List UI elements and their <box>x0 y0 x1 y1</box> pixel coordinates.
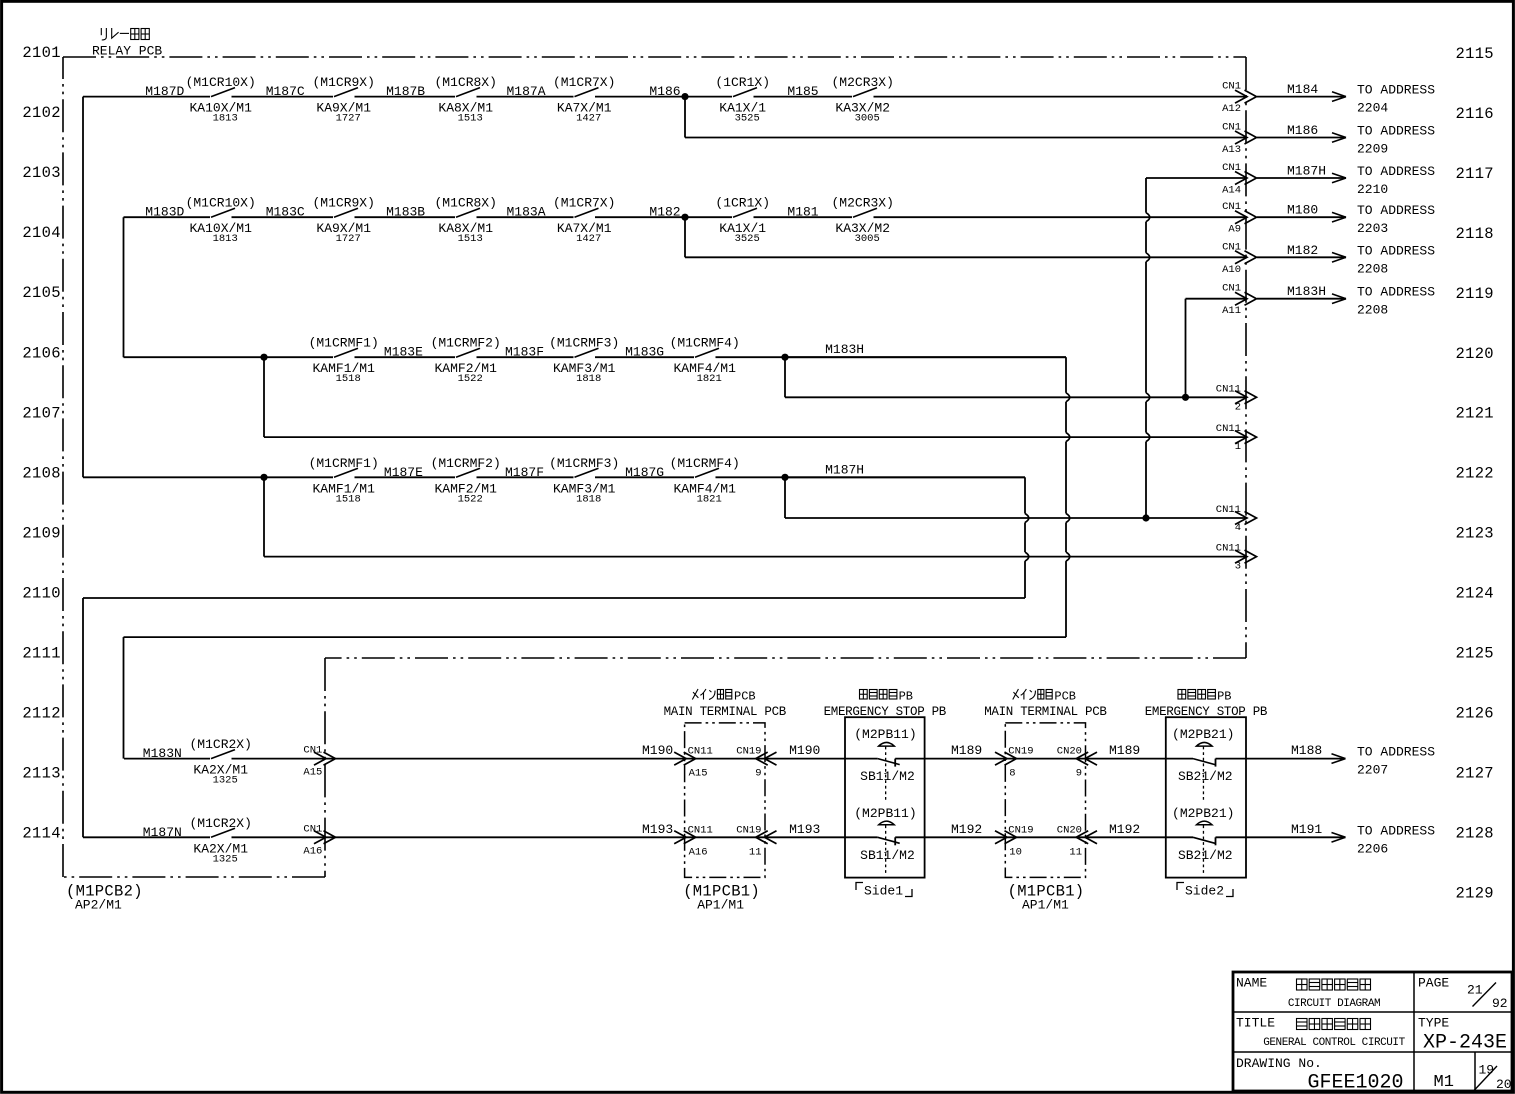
svg-text:1727: 1727 <box>336 233 361 245</box>
svg-text:A16: A16 <box>689 846 708 858</box>
svg-text:TO ADDRESS: TO ADDRESS <box>1357 164 1435 179</box>
svg-text:GFEE1020: GFEE1020 <box>1308 1072 1404 1094</box>
net labels row 2104 <box>145 205 819 220</box>
svg-text:M183D: M183D <box>145 205 184 220</box>
svg-text:1522: 1522 <box>458 493 483 505</box>
relay contact KA9X/M1 (M1CR9X) row 2102 <box>312 75 374 125</box>
svg-text:A13: A13 <box>1222 144 1241 156</box>
svg-text:(M1CR7X): (M1CR7X) <box>553 75 615 90</box>
relay PCB boundary (dash-dot outline) <box>63 57 1246 877</box>
relay contact KA8X/M1 (M1CR8X) row 2102 <box>434 75 496 125</box>
svg-text:M186: M186 <box>1287 123 1318 138</box>
svg-text:(M1CR8X): (M1CR8X) <box>434 75 496 90</box>
svg-text:1427: 1427 <box>576 113 601 125</box>
svg-text:PCB: PCB <box>1054 689 1076 703</box>
label M1PCB1 under box1 <box>683 883 760 913</box>
connector CN11 pin A15 (box1 left) <box>674 746 713 780</box>
svg-text:2109: 2109 <box>22 524 60 542</box>
svg-text:1813: 1813 <box>213 113 238 125</box>
relay contact KAMF3/M1 (M1CRMF3) row 2108 <box>549 456 619 506</box>
svg-text:2114: 2114 <box>22 825 60 843</box>
svg-text:(1CR1X): (1CR1X) <box>715 196 770 211</box>
label main terminal PCB box2 <box>984 689 1107 719</box>
svg-text:2206: 2206 <box>1357 841 1388 856</box>
svg-text:CN11: CN11 <box>1216 423 1241 435</box>
net labels along row <box>642 743 1322 758</box>
svg-text:M182: M182 <box>1287 243 1318 258</box>
svg-text:1821: 1821 <box>697 373 722 385</box>
connector CN1 pin A14 <box>1222 162 1256 197</box>
svg-text:(M1CR10X): (M1CR10X) <box>186 75 256 90</box>
svg-text:2119: 2119 <box>1456 285 1494 303</box>
relay PCB name label <box>92 28 162 59</box>
svg-text:2204: 2204 <box>1357 101 1388 116</box>
junction M186 <box>681 93 688 100</box>
svg-text:CN1: CN1 <box>1222 122 1241 134</box>
svg-text:AP1/M1: AP1/M1 <box>1022 898 1069 913</box>
svg-text:2120: 2120 <box>1456 345 1494 363</box>
svg-text:11: 11 <box>749 846 762 858</box>
svg-text:CN1: CN1 <box>1222 283 1241 295</box>
junction CN11-4 / V4 <box>1142 514 1149 521</box>
junction CN11-2 / V5 <box>1182 394 1189 401</box>
svg-text:2126: 2126 <box>1456 704 1494 722</box>
svg-text:M187E: M187E <box>384 465 423 480</box>
relay contact KA1X/1 (1CR1X) row 2102 <box>715 75 770 125</box>
svg-text:3525: 3525 <box>735 233 760 245</box>
junction row 2106 M183H <box>781 354 788 361</box>
label Side2 <box>1177 883 1233 899</box>
svg-text:(1CR1X): (1CR1X) <box>715 75 770 90</box>
svg-text:9: 9 <box>1076 768 1082 780</box>
svg-text:M185: M185 <box>787 84 818 99</box>
net label M187N row <box>143 825 182 840</box>
svg-text:CN20: CN20 <box>1057 824 1082 836</box>
wire out M186 to address 2209 <box>1257 123 1435 157</box>
svg-text:M183A: M183A <box>507 205 546 220</box>
svg-text:1427: 1427 <box>576 233 601 245</box>
junction row 2108 at x264 <box>260 474 267 481</box>
wire out arrow to address 2206 <box>1332 823 1436 856</box>
svg-text:2121: 2121 <box>1456 405 1494 423</box>
wire out M187H to address 2210 <box>1257 164 1435 198</box>
svg-text:2105: 2105 <box>22 284 60 302</box>
svg-text:1522: 1522 <box>458 373 483 385</box>
svg-text:PB: PB <box>899 689 913 703</box>
svg-text:2: 2 <box>1235 401 1241 413</box>
svg-text:(M2PB11): (M2PB11) <box>854 727 916 742</box>
pushbutton SB21/M2 (M2PB21) row 2113 <box>1172 727 1234 802</box>
svg-text:20: 20 <box>1496 1077 1512 1092</box>
connector CN19 pin 10 (box2 left) <box>995 824 1034 858</box>
svg-text:1818: 1818 <box>576 373 601 385</box>
svg-text:CN11: CN11 <box>1216 543 1241 555</box>
emergency stop PB box side2 <box>1166 717 1246 877</box>
svg-text:(M1CRMF4): (M1CRMF4) <box>670 336 740 351</box>
svg-text:M187G: M187G <box>625 465 664 480</box>
svg-text:M187B: M187B <box>386 84 425 99</box>
svg-text:CN11: CN11 <box>1216 504 1241 516</box>
svg-text:2108: 2108 <box>22 464 60 482</box>
label emergency stop PB side2 <box>1145 689 1268 719</box>
svg-text:M183E: M183E <box>384 345 423 360</box>
label M1PCB2 bottom left <box>66 883 143 913</box>
net label M183N row <box>143 746 182 761</box>
connector CN1 pin A9 <box>1222 201 1256 236</box>
svg-text:19: 19 <box>1479 1063 1495 1078</box>
svg-text:2207: 2207 <box>1357 763 1388 778</box>
svg-text:3005: 3005 <box>855 113 880 125</box>
svg-text:M181: M181 <box>787 205 818 220</box>
svg-text:(M1CR8X): (M1CR8X) <box>434 196 496 211</box>
svg-text:10: 10 <box>1009 846 1022 858</box>
svg-text:AP2/M1: AP2/M1 <box>75 898 122 913</box>
svg-text:A10: A10 <box>1222 264 1241 276</box>
svg-text:1821: 1821 <box>697 493 722 505</box>
label Side1 <box>856 883 912 899</box>
svg-text:2116: 2116 <box>1456 105 1494 123</box>
relay contact KA2X/M1 (M1CR2X) row <box>189 737 251 787</box>
svg-text:Side2: Side2 <box>1185 884 1224 899</box>
line numbers left column 2101-2114 <box>22 44 60 843</box>
main terminal PCB box 1 <box>685 723 765 878</box>
svg-text:A9: A9 <box>1228 224 1241 236</box>
svg-text:CIRCUIT DIAGRAM: CIRCUIT DIAGRAM <box>1288 998 1380 1010</box>
svg-text:(M1CR9X): (M1CR9X) <box>312 196 374 211</box>
svg-text:(M2PB21): (M2PB21) <box>1172 806 1234 821</box>
relay contact KA7X/M1 (M1CR7X) row 2104 <box>553 196 615 246</box>
svg-text:AP1/M1: AP1/M1 <box>697 898 744 913</box>
net labels row 2106 <box>384 342 864 360</box>
svg-text:SB21/M2: SB21/M2 <box>1178 848 1233 863</box>
wire row2106 branch to CN11-1 <box>264 357 1247 437</box>
svg-text:A11: A11 <box>1222 305 1241 317</box>
svg-text:TO ADDRESS: TO ADDRESS <box>1357 745 1435 760</box>
wire row M183N main <box>124 758 1346 760</box>
connector CN19 pin 9 (box1 right) <box>736 746 776 780</box>
svg-text:Side1: Side1 <box>864 884 903 899</box>
svg-text:CN1: CN1 <box>303 745 322 757</box>
svg-text:1513: 1513 <box>458 233 483 245</box>
svg-text:EMERGENCY STOP PB: EMERGENCY STOP PB <box>824 705 947 719</box>
svg-text:1325: 1325 <box>213 853 238 865</box>
svg-text:1727: 1727 <box>336 113 361 125</box>
connector CN11 pin 1 <box>1216 423 1257 453</box>
pushbutton SB21/M2 (M2PB21) row 2114 <box>1172 806 1234 874</box>
svg-text:CN1: CN1 <box>303 823 322 835</box>
svg-text:TYPE: TYPE <box>1418 1016 1449 1031</box>
svg-text:M186: M186 <box>649 84 680 99</box>
line numbers right column 2115-2129 <box>1456 45 1494 902</box>
svg-text:NAME: NAME <box>1236 976 1267 991</box>
svg-text:(M1CRMF3): (M1CRMF3) <box>549 456 619 471</box>
svg-text:M189: M189 <box>951 743 982 758</box>
connector CN1 pin A10 <box>1222 241 1256 275</box>
svg-text:(M1CR7X): (M1CR7X) <box>553 196 615 211</box>
wire row 2102 <box>83 96 1247 98</box>
wire row 2106 <box>124 356 1067 358</box>
svg-text:1818: 1818 <box>576 493 601 505</box>
svg-text:2125: 2125 <box>1456 645 1494 663</box>
wire M183H drop to CN11-2 <box>785 357 1247 397</box>
svg-text:TO ADDRESS: TO ADDRESS <box>1357 124 1435 139</box>
svg-text:2110: 2110 <box>22 584 60 602</box>
svg-text:A14: A14 <box>1222 185 1241 197</box>
svg-text:SB21/M2: SB21/M2 <box>1178 769 1233 784</box>
svg-text:M183G: M183G <box>625 345 664 360</box>
wire out arrow to address 2207 <box>1332 745 1436 778</box>
svg-text:2101: 2101 <box>22 44 60 62</box>
svg-text:RELAY PCB: RELAY PCB <box>92 44 162 59</box>
wire M182 branch down <box>685 217 1247 257</box>
wire row2108 branch to CN11-3 <box>264 477 1247 556</box>
wire M183H riser to row 2105 <box>1186 299 1248 398</box>
svg-text:CN20: CN20 <box>1057 746 1082 758</box>
svg-text:(M1CRMF1): (M1CRMF1) <box>309 456 379 471</box>
svg-text:2117: 2117 <box>1456 165 1494 183</box>
relay contact KAMF1/M1 (M1CRMF1) row 2108 <box>309 456 379 506</box>
svg-text:3525: 3525 <box>735 113 760 125</box>
svg-text:M190: M190 <box>789 743 820 758</box>
svg-text:M191: M191 <box>1291 822 1322 837</box>
svg-text:M192: M192 <box>1109 822 1140 837</box>
relay contact KA9X/M1 (M1CR9X) row 2104 <box>312 196 374 246</box>
junction row 2108 M187H <box>781 474 788 481</box>
svg-text:M187F: M187F <box>505 465 544 480</box>
svg-text:SB11/M2: SB11/M2 <box>860 769 915 784</box>
svg-text:2118: 2118 <box>1456 225 1494 243</box>
svg-text:2124: 2124 <box>1456 585 1494 603</box>
svg-text:CN1: CN1 <box>1222 81 1241 93</box>
svg-text:TO ADDRESS: TO ADDRESS <box>1357 285 1435 300</box>
wire out M183H to address 2208 <box>1257 284 1435 318</box>
svg-text:2210: 2210 <box>1357 182 1388 197</box>
wire out M184 to address 2204 <box>1257 82 1435 116</box>
connector CN1 pin A11 <box>1222 283 1256 318</box>
svg-text:1518: 1518 <box>336 493 361 505</box>
svg-text:M182: M182 <box>649 205 680 220</box>
svg-text:M187D: M187D <box>145 84 184 99</box>
wire M187H riser to row 2103 <box>1146 178 1247 518</box>
svg-text:A12: A12 <box>1222 103 1241 115</box>
svg-text:M187H: M187H <box>825 462 864 477</box>
svg-text:2103: 2103 <box>22 164 60 182</box>
svg-text:2129: 2129 <box>1456 884 1494 902</box>
pushbutton SB11/M2 (M2PB11) row 2114 <box>854 806 916 874</box>
wire row 2104 rail left <box>123 217 125 357</box>
connector CN11 pin 3 <box>1216 543 1257 573</box>
svg-text:4: 4 <box>1235 522 1241 534</box>
wire M187H to row 2110 riser <box>785 477 1029 598</box>
relay contact KA7X/M1 (M1CR7X) row 2102 <box>553 75 615 125</box>
relay contact KAMF4/M1 (M1CRMF4) row 2106 <box>670 336 740 386</box>
wire row 2111 <box>124 637 1067 759</box>
connector CN11 pin 2 <box>1216 383 1257 413</box>
svg-text:TO ADDRESS: TO ADDRESS <box>1357 83 1435 98</box>
svg-text:EMERGENCY STOP PB: EMERGENCY STOP PB <box>1145 705 1268 719</box>
svg-text:GENERAL CONTROL CIRCUIT: GENERAL CONTROL CIRCUIT <box>1263 1037 1405 1049</box>
svg-text:M1: M1 <box>1434 1073 1454 1092</box>
svg-text:M193: M193 <box>642 822 673 837</box>
svg-text:1513: 1513 <box>458 113 483 125</box>
svg-text:CN19: CN19 <box>736 746 761 758</box>
svg-text:(M2CR3X): (M2CR3X) <box>831 75 893 90</box>
connector CN1 pin A13 <box>1222 122 1256 157</box>
svg-text:PCB: PCB <box>734 689 756 703</box>
wire out M180 to address 2203 <box>1257 203 1435 237</box>
svg-text:M187A: M187A <box>507 84 546 99</box>
wire M186 branch down <box>685 97 1247 138</box>
junction M182 <box>681 214 688 221</box>
svg-text:2107: 2107 <box>22 404 60 422</box>
svg-text:M187C: M187C <box>266 84 305 99</box>
relay contact KA8X/M1 (M1CR8X) row 2104 <box>434 196 496 246</box>
wire row 2102 rail left <box>82 97 84 478</box>
wire row M187N main <box>83 836 1346 838</box>
label M1PCB1 under box2 <box>1008 883 1085 913</box>
connector CN19 pin 11 (box1 right) <box>736 824 776 858</box>
svg-text:2112: 2112 <box>22 705 60 723</box>
svg-text:M184: M184 <box>1287 82 1318 97</box>
svg-text:3: 3 <box>1235 561 1241 573</box>
relay contact KA2X/M1 (M1CR2X) row <box>189 816 251 866</box>
emergency stop PB box side1 <box>845 717 925 877</box>
svg-text:(M1CR9X): (M1CR9X) <box>312 75 374 90</box>
svg-text:2203: 2203 <box>1357 221 1388 236</box>
connector CN1 pin A15 <box>303 745 335 779</box>
wire row 2110 <box>83 598 1025 837</box>
svg-text:2209: 2209 <box>1357 142 1388 157</box>
title block <box>1233 972 1512 1094</box>
net labels row 2102 <box>145 84 818 99</box>
svg-text:2208: 2208 <box>1357 261 1388 276</box>
svg-text:CN11: CN11 <box>1216 383 1241 395</box>
relay contact KA10X/M1 (M1CR10X) row 2102 <box>186 75 256 125</box>
svg-text:(M1CR10X): (M1CR10X) <box>186 196 256 211</box>
svg-text:2122: 2122 <box>1456 465 1494 483</box>
svg-text:(M1CRMF2): (M1CRMF2) <box>431 336 501 351</box>
svg-text:2123: 2123 <box>1456 525 1494 543</box>
wire row 2108 <box>83 476 1025 478</box>
svg-text:1813: 1813 <box>213 233 238 245</box>
svg-text:CN19: CN19 <box>736 824 761 836</box>
relay contact KA3X/M2 (M2CR3X) row 2104 <box>831 196 893 246</box>
svg-text:(M1CR2X): (M1CR2X) <box>189 816 251 831</box>
svg-text:CN1: CN1 <box>1222 162 1241 174</box>
svg-text:M189: M189 <box>1109 743 1140 758</box>
svg-text:8: 8 <box>1009 768 1015 780</box>
relay contact KAMF4/M1 (M1CRMF4) row 2108 <box>670 456 740 506</box>
label emergency stop PB side1 <box>824 689 947 719</box>
svg-text:2208: 2208 <box>1357 303 1388 318</box>
connector CN19 pin 8 (box2 left) <box>995 746 1034 780</box>
svg-text:TITLE: TITLE <box>1236 1016 1275 1031</box>
svg-text:11: 11 <box>1069 846 1082 858</box>
svg-text:2115: 2115 <box>1456 45 1494 63</box>
relay contact KAMF1/M1 (M1CRMF1) row 2106 <box>309 336 379 386</box>
main terminal PCB box 2 <box>1005 723 1085 878</box>
wire out M182 to address 2208 <box>1257 243 1435 276</box>
svg-text:A15: A15 <box>689 768 708 780</box>
label main terminal PCB box1 <box>664 689 787 719</box>
net labels along row <box>642 822 1322 837</box>
svg-text:M193: M193 <box>789 822 820 837</box>
svg-text:MAIN TERMINAL PCB: MAIN TERMINAL PCB <box>664 705 787 719</box>
svg-text:2111: 2111 <box>22 645 60 663</box>
svg-text:2106: 2106 <box>22 344 60 362</box>
svg-text:(M2CR3X): (M2CR3X) <box>831 196 893 211</box>
relay contact KAMF3/M1 (M1CRMF3) row 2106 <box>549 336 619 386</box>
connector CN11 pin A16 (box1 left) <box>674 824 713 858</box>
svg-text:TO ADDRESS: TO ADDRESS <box>1357 203 1435 218</box>
svg-text:M183H: M183H <box>1287 284 1326 299</box>
svg-text:CN1: CN1 <box>1222 201 1241 213</box>
svg-text:2113: 2113 <box>22 765 60 783</box>
svg-text:(M1CRMF3): (M1CRMF3) <box>549 336 619 351</box>
svg-text:(M2PB11): (M2PB11) <box>854 806 916 821</box>
svg-text:CN19: CN19 <box>1008 824 1033 836</box>
svg-text:M180: M180 <box>1287 203 1318 218</box>
svg-text:CN19: CN19 <box>1008 746 1033 758</box>
svg-text:1518: 1518 <box>336 373 361 385</box>
connector CN11 pin 4 <box>1216 504 1257 534</box>
svg-text:MAIN TERMINAL PCB: MAIN TERMINAL PCB <box>984 705 1107 719</box>
svg-text:2128: 2128 <box>1456 824 1494 842</box>
svg-text:XP-243E: XP-243E <box>1423 1032 1507 1055</box>
connector CN1 pin A16 <box>303 823 335 857</box>
svg-text:21: 21 <box>1467 983 1483 998</box>
svg-text:PAGE: PAGE <box>1418 976 1449 991</box>
svg-text:SB11/M2: SB11/M2 <box>860 848 915 863</box>
svg-text:M183C: M183C <box>266 205 305 220</box>
wire M187H drop to CN11-4 <box>785 477 1247 518</box>
svg-text:CN1: CN1 <box>1222 241 1241 253</box>
connector CN20 pin 11 (box2 right) <box>1057 824 1097 858</box>
svg-text:M187H: M187H <box>1287 164 1326 179</box>
svg-text:1325: 1325 <box>213 775 238 787</box>
svg-text:(M1CR2X): (M1CR2X) <box>189 737 251 752</box>
relay contact KA1X/1 (1CR1X) row 2104 <box>715 196 770 246</box>
svg-text:2102: 2102 <box>22 104 60 122</box>
svg-text:(M1CRMF2): (M1CRMF2) <box>431 456 501 471</box>
connector CN20 pin 9 (box2 right) <box>1057 746 1097 780</box>
wire row 2104 <box>124 216 1248 218</box>
relay contact KA3X/M2 (M2CR3X) row 2102 <box>831 75 893 125</box>
svg-text:CN11: CN11 <box>688 824 713 836</box>
svg-text:2127: 2127 <box>1456 764 1494 782</box>
svg-text:(M1CRMF1): (M1CRMF1) <box>309 336 379 351</box>
relay contact KAMF2/M1 (M1CRMF2) row 2108 <box>431 456 501 506</box>
svg-text:CN11: CN11 <box>688 746 713 758</box>
relay contact KA10X/M1 (M1CR10X) row 2104 <box>186 196 256 246</box>
svg-text:A15: A15 <box>303 767 322 779</box>
wire M183H to row 2111 riser <box>785 357 1070 637</box>
svg-text:M183F: M183F <box>505 345 544 360</box>
svg-text:M192: M192 <box>951 822 982 837</box>
relay contact KAMF2/M1 (M1CRMF2) row 2106 <box>431 336 501 386</box>
svg-text:(M1CRMF4): (M1CRMF4) <box>670 456 740 471</box>
svg-text:TO ADDRESS: TO ADDRESS <box>1357 823 1435 838</box>
svg-text:2104: 2104 <box>22 224 60 242</box>
svg-text:3005: 3005 <box>855 233 880 245</box>
svg-text:M183H: M183H <box>825 342 864 357</box>
net labels row 2108 <box>384 462 864 480</box>
svg-text:PB: PB <box>1217 689 1231 703</box>
svg-text:M190: M190 <box>642 743 673 758</box>
svg-text:M188: M188 <box>1291 743 1322 758</box>
svg-text:92: 92 <box>1492 996 1508 1011</box>
svg-text:9: 9 <box>755 768 761 780</box>
